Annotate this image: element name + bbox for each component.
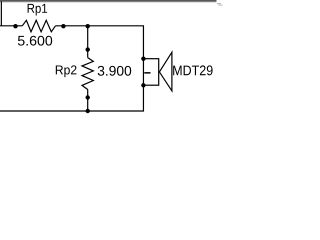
node: junction of Rp2 branch with top rail — [86, 24, 90, 28]
speaker body (box of MDT29) — [143, 59, 158, 85]
wire (branch from top rail to Rp2 top pin) — [87, 26, 89, 58]
wire (speaker bottom pin down, bottom rail to left edge) — [0, 85, 143, 111]
label Rp2 — [56, 65, 77, 77]
node: bottom pin dot of MDT29 — [141, 83, 145, 87]
polarity minus sign inside box — [144, 72, 150, 74]
node: junction of Rp2 branch with bottom rail — [86, 109, 90, 113]
window corner artifact — [217, 3, 221, 4]
node: top pin dot of MDT29 — [141, 57, 145, 61]
node: junction dot left end of Rp1 — [13, 24, 17, 28]
node: Rp2 bottom pin dot — [86, 95, 90, 99]
value 3.900 — [98, 66, 132, 76]
node: junction dot right end of Rp1 — [61, 24, 65, 28]
wire (top rail from Rp1 to right corner, down to speaker) — [56, 26, 144, 59]
speaker cone (triangle of MDT29) — [159, 52, 172, 91]
wire (cropped stub at left edge) — [0, 2, 2, 26]
resistor Rp2 — [82, 58, 93, 90]
label MDT29 — [173, 65, 212, 75]
toolbar edge (top window border) — [0, 0, 217, 2]
wire (top rail into resistor Rp1) — [0, 25, 22, 27]
node: Rp2 top pin dot — [86, 47, 90, 51]
value 5.600 — [18, 36, 52, 46]
wire (from Rp2 bottom pin to bottom rail) — [87, 90, 89, 112]
label Rp1 — [28, 4, 47, 16]
resistor Rp1 — [22, 20, 55, 32]
